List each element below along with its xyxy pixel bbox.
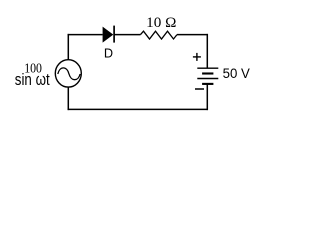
battery + polarity sign (193, 53, 201, 61)
wire diode cathode to resistor (114, 34, 140, 36)
wire bottom horizontal (68, 108, 208, 110)
label D (104, 46, 113, 61)
battery - polarity sign (195, 88, 204, 90)
resistor R1 10 ohm zigzag (141, 31, 178, 39)
wire right vertical upper (corner to battery +) (206, 34, 208, 68)
wire left vertical upper (top corner to source) (67, 34, 69, 60)
AC source sine wave (58, 68, 80, 80)
label sin wt (line 2 of source value) (15, 72, 51, 89)
label 10 ohm (146, 15, 176, 31)
svg-text:D: D (104, 46, 113, 61)
battery B1 plate 3 long (+) (197, 78, 218, 80)
diode D (triangle) (103, 27, 114, 43)
svg-text:sin ωt: sin ωt (15, 72, 51, 89)
wire left vertical lower (source to bottom corner) (67, 87, 69, 110)
svg-text:50 V: 50 V (223, 65, 251, 81)
wire resistor to top-right corner (177, 34, 208, 36)
wire top-left horizontal (corner to diode anode) (68, 34, 103, 36)
battery B1 plate 2 short (-) (202, 72, 213, 74)
label 50 V (223, 65, 251, 81)
label 100 (line 1 of source value) (24, 62, 42, 77)
diode D cathode bar (113, 26, 115, 43)
svg-text:10 Ω: 10 Ω (146, 15, 176, 31)
battery B1 plate 4 short (-) (202, 83, 213, 85)
wire right vertical lower (battery - to corner) (206, 84, 208, 110)
AC source V1 circle (55, 60, 81, 87)
battery B1 plate 1 long (+) (197, 67, 218, 69)
